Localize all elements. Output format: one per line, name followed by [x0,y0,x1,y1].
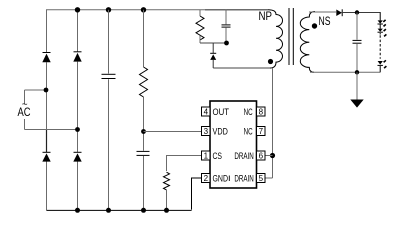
node dot AC lower [75,127,80,132]
wire secondary top [309,11,336,13]
label AC source [18,100,31,120]
capacitor C3 snubber [222,10,231,43]
transformer primary winding NP [268,10,283,68]
artifact tick after GND [228,176,230,182]
LED D7 [378,20,386,27]
pin 4 box [202,107,211,116]
wire pin6 lead [265,155,273,157]
pin 7 box [257,127,266,136]
svg-text:DRAIN: DRAIN [234,173,253,184]
svg-text:NC: NC [244,107,253,118]
pin 3 box [202,127,211,136]
pin 1 box [202,151,211,160]
wire LED1-LED2 [379,24,381,28]
diode D3 bridge bottom-left [42,152,50,161]
wire CS resistor to rail [166,190,168,211]
pin 2 box [202,174,211,183]
wire second bridge column [77,10,79,211]
diode D6 snubber [210,43,216,68]
diode D1 bridge top-left [42,53,50,63]
wire AC terminal upper stub [24,90,26,104]
node dot drain pin6 [270,153,275,158]
wire VDD [144,131,202,133]
node dot CS resistor bottom [164,208,169,213]
LED D9 [378,60,387,68]
wire LED string to bottom [379,66,381,72]
LED D8 [378,29,387,37]
pin 8 box [257,107,266,116]
resistor R2 current sense [164,172,170,190]
diode D4 bridge bottom-right [73,152,81,161]
wire drain drop [272,68,274,178]
wire snubber node [200,42,227,44]
wire dark segment left column [46,130,48,152]
pin 5 box [257,174,266,183]
polarity dot secondary [312,23,317,28]
polarity dot primary [268,59,273,64]
wire diode to corner [342,12,381,14]
svg-text:2: 2 [204,174,209,183]
wire left bridge column [46,10,48,211]
wire AC upper horizontal [25,89,47,91]
wire AC lower horizontal [25,129,78,131]
resistor R1 startup [140,67,148,97]
node dot output bottom [355,70,359,74]
diode D5 output rectifier [336,9,342,16]
svg-text:7: 7 [259,127,264,136]
node dot rail-col4 [141,7,146,12]
svg-text:GND: GND [213,173,229,184]
svg-text:4: 4 [204,107,209,116]
node dot snubber [224,41,229,46]
svg-text:8: 8 [259,107,264,116]
svg-text:VDD: VDD [213,126,228,137]
transformer secondary winding NS [300,12,315,73]
wire AC terminal lower stub [24,119,26,130]
wire LED dashed continuation [379,33,381,59]
wire secondary bottom [310,71,380,73]
ground symbol [350,72,363,107]
diode D2 bridge top-right [73,52,81,62]
resistor R3 snubber [196,10,204,43]
svg-text:1: 1 [204,151,209,160]
node dot rail-col2 bottom [75,208,80,213]
svg-text:OUT: OUT [213,107,230,118]
wire LED string column top [379,13,381,21]
wire bulk cap column [108,10,110,211]
wire CS [167,156,202,172]
node dot output top [355,10,359,14]
svg-text:3: 3 [204,127,209,136]
node dot AC upper [44,88,49,93]
wire bottom rail B- [47,209,192,211]
capacitor C2 VDD bypass [137,151,150,155]
svg-text:NS: NS [319,16,331,28]
svg-text:NP: NP [259,9,273,23]
node dot VDD junction [141,129,146,134]
wire startup resistor column [143,10,145,211]
svg-text:DRAIN: DRAIN [234,151,253,162]
capacitor C1 bulk [102,74,116,78]
transformer core lines [289,8,293,65]
node dot rail-col4 bottom [141,208,146,213]
svg-text:CS: CS [213,151,223,162]
wire pin5 lead [265,177,273,179]
node dot rail-col3 [106,7,111,12]
svg-text:5: 5 [259,174,264,183]
svg-text:~: ~ [22,100,28,111]
wire top rail B+ [46,9,205,11]
svg-text:NC: NC [244,126,253,137]
wire primary bottom [213,67,271,69]
capacitor C4 output [353,13,362,73]
node dot rail-col2 [75,7,80,12]
wire GND pin to rail (thick) [192,178,202,210]
svg-text:6: 6 [259,151,264,160]
node dot rail-col3 bottom [106,208,111,213]
op-amp U1 body [210,101,257,188]
pin 6 box [257,151,266,160]
